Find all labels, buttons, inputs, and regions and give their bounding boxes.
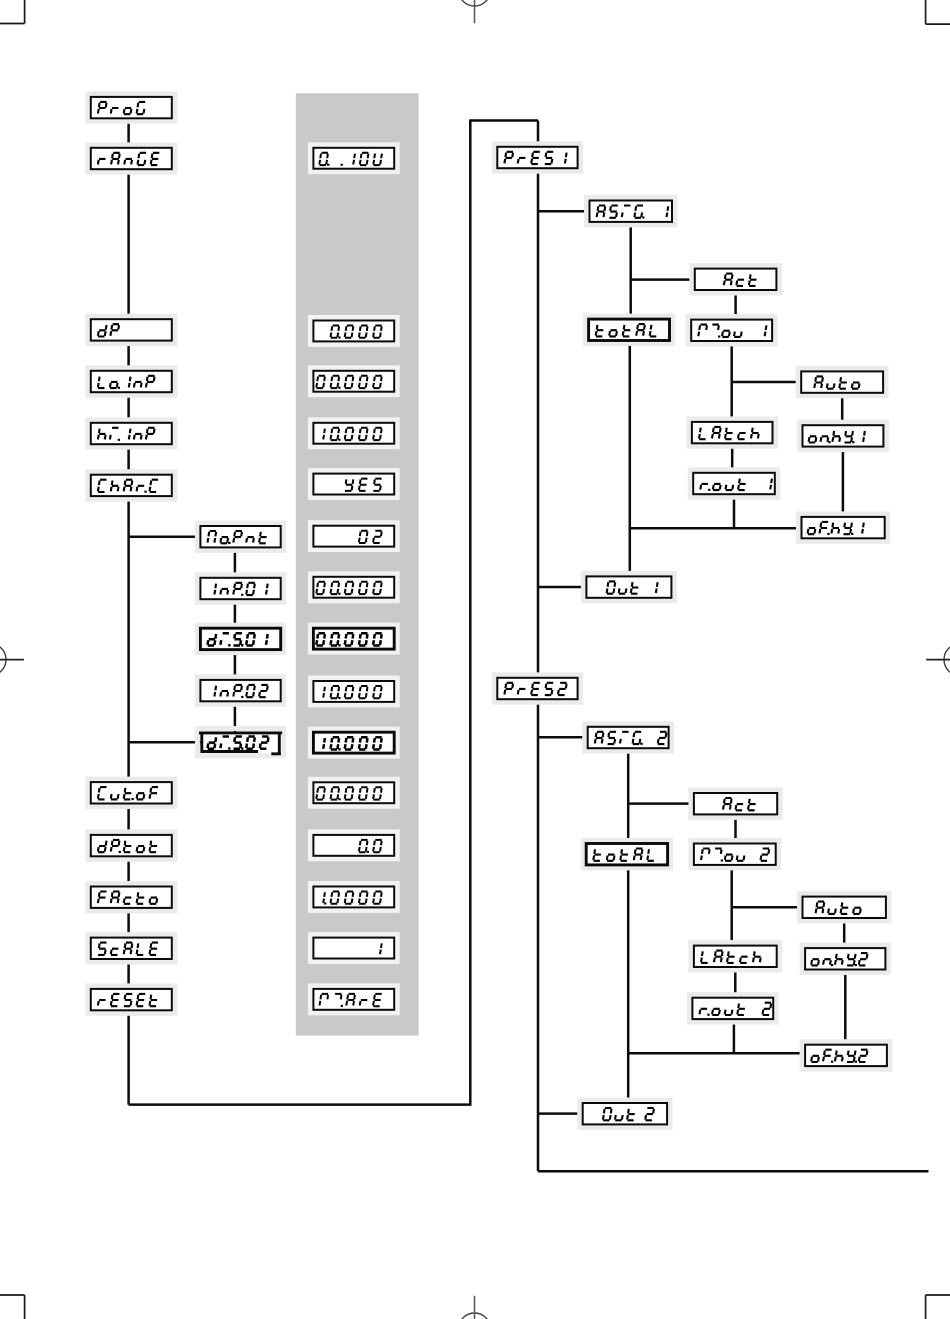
menu box Out1	[583, 573, 674, 600]
wire branch to ASiG.1	[538, 210, 590, 213]
value box 1	[310, 935, 397, 962]
value box 1.0000	[310, 884, 397, 911]
menu box ScALE	[88, 935, 175, 962]
menu box PrES1	[494, 144, 580, 171]
wire trunk PrES1-PrES2	[537, 168, 540, 678]
menu box onhY.2	[802, 945, 888, 972]
menu box dP.tot	[88, 832, 175, 859]
menu box oFhY.1	[799, 514, 888, 541]
menu box Out2	[580, 1100, 670, 1127]
wire diS.01-InP.02	[234, 650, 237, 680]
wire branch to Out2	[538, 1112, 583, 1115]
menu box onhY.1	[800, 422, 887, 449]
wire FActo-ScALE	[127, 908, 130, 938]
menu box LAtch (1)	[689, 419, 776, 446]
wire branch to ASiG.2	[538, 736, 588, 739]
wire CutoF-dPtot	[127, 804, 130, 835]
wire totAL-Out1 long	[629, 341, 632, 577]
menu box FActo	[88, 884, 175, 911]
wire InP.01-diS.01	[234, 599, 237, 628]
wire dP-Lo.InP	[127, 341, 130, 371]
menu box rAnGE	[88, 145, 175, 172]
wire Mou2-LAtch (2)	[730, 865, 733, 946]
menu box ChAr.C	[88, 472, 175, 499]
value box 10.000 (diS.02)	[310, 729, 397, 756]
registration target right-middle	[926, 644, 950, 676]
menu box ProG	[88, 94, 175, 121]
wire return vertical up	[469, 119, 472, 1105]
menu box Auto (2)	[800, 894, 889, 921]
crop mark bottom-right corner	[926, 1295, 950, 1319]
value box 02	[310, 523, 397, 550]
wire InP.02-diS.02	[234, 701, 237, 731]
menu box Mou2	[691, 841, 779, 868]
registration target top-center	[459, 0, 491, 23]
menu box PrES2	[494, 675, 580, 702]
menu box diS.01	[197, 625, 283, 652]
value box 10.000 (hi.InP)	[310, 420, 397, 447]
wire branch to NoPnt	[129, 535, 201, 538]
wire Auto-onhY.2	[843, 918, 846, 948]
menu box Auto (1)	[798, 368, 886, 395]
menu box totAL (1)	[586, 316, 673, 343]
wire Mou1-LAtch (1)	[730, 342, 733, 422]
wire Lo.InP-hi.InP	[127, 392, 130, 423]
wire onhY.2-oFhY.2	[844, 969, 847, 1044]
wire branch to diS.02	[129, 741, 201, 744]
wire Act-Mou2	[734, 814, 737, 843]
menu box totAL (2)	[583, 841, 670, 868]
value box 0..10U	[310, 145, 397, 172]
value box 00.000 (Lo.InP)	[310, 368, 397, 395]
menu box Cut.oF	[88, 779, 175, 806]
wire totAL-Out2 long	[627, 865, 630, 1103]
wire branch to Auto (2)	[732, 906, 803, 909]
wire onhY.1-oFhY.1	[842, 446, 845, 517]
menu box LAtch (2)	[691, 943, 780, 970]
value box 00.000 (Cut.oF)	[310, 779, 397, 806]
wire ScALE-rESEt	[127, 959, 130, 989]
wire Auto-onhY.1	[841, 393, 844, 426]
menu box rESEt	[88, 986, 175, 1013]
value box YES	[310, 471, 397, 498]
registration target left-middle	[0, 644, 24, 676]
wire r.out1 down join	[733, 495, 736, 529]
menu box Act (1)	[692, 266, 780, 293]
menu box NoPnt	[197, 523, 283, 550]
value box MArE	[310, 986, 397, 1013]
menu box oFhY.2	[802, 1042, 890, 1069]
wire r.out2 down join	[733, 1019, 736, 1053]
wire branch to oFhY.2	[628, 1052, 805, 1055]
menu box ASiG.1	[587, 198, 676, 225]
wire LAtch-r.out1	[731, 444, 734, 473]
wire ASiG.1-totAL	[629, 222, 632, 320]
wire branch to Act (2)	[628, 802, 694, 805]
wire ProG-rAnGE	[127, 118, 130, 148]
menu box r.out1	[690, 470, 778, 497]
menu box r.out2	[689, 995, 776, 1022]
crop mark top-left corner	[0, 0, 25, 24]
value box 00.000 (diS.01)	[310, 625, 397, 652]
registration target bottom-center	[459, 1296, 491, 1319]
menu box dP	[88, 316, 175, 343]
wire return top horizontal	[470, 119, 538, 122]
wire bottom return horizontal	[129, 1103, 471, 1106]
wire rESEt down	[127, 1010, 130, 1104]
value box 00.000 (InP.01)	[310, 574, 397, 601]
grey parameter-value band	[296, 93, 419, 1035]
menu box Mou1	[688, 317, 775, 344]
wire Act-Mou1	[734, 291, 737, 320]
wire dPtot-FActo	[127, 856, 130, 886]
wire hi.InP-ChArC	[127, 444, 130, 475]
value box 0.000	[310, 318, 397, 345]
value box 10.000 (InP.02)	[310, 678, 397, 705]
wire ASiG.2-totAL (2)	[627, 748, 630, 844]
menu box InP.02	[197, 677, 283, 704]
crop mark top-right corner	[926, 0, 950, 24]
crop mark bottom-left corner	[0, 1295, 25, 1319]
menu box InP.01	[197, 575, 283, 602]
value box 0.0	[310, 832, 397, 859]
menu box hi.InP	[88, 420, 175, 447]
wire branch to Out1	[538, 586, 586, 589]
wire branch to oFhY.1	[630, 527, 802, 530]
wire trunk PrES2 down	[537, 700, 540, 1172]
menu box diS.02	[197, 729, 283, 756]
wire bottom right horizontal	[538, 1170, 929, 1173]
menu box Act (2)	[691, 790, 780, 817]
wire into PrES1	[537, 121, 540, 147]
menu box ASiG.2	[585, 724, 672, 751]
wire NoPnt-InP.01	[234, 547, 237, 578]
wire branch to Act (1)	[631, 278, 695, 281]
wire ChArC trunk down to CutoF	[127, 496, 130, 782]
wire LAtch-r.out2	[734, 967, 737, 997]
wire branch to Auto (1)	[732, 381, 802, 384]
wire rAnGE-dP long	[127, 169, 130, 319]
menu box Lo.InP	[88, 368, 175, 395]
